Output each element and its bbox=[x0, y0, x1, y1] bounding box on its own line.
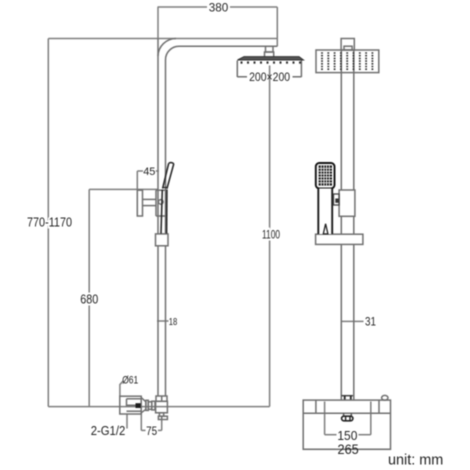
svg-text:Ø61: Ø61 bbox=[122, 375, 138, 387]
svg-text:1100: 1100 bbox=[262, 229, 280, 241]
svg-text:75: 75 bbox=[146, 424, 157, 438]
svg-text:265: 265 bbox=[338, 442, 359, 457]
svg-text:45: 45 bbox=[143, 166, 155, 178]
svg-text:31: 31 bbox=[365, 317, 376, 329]
svg-text:200×200: 200×200 bbox=[249, 70, 290, 84]
svg-text:380: 380 bbox=[209, 2, 229, 14]
svg-text:680: 680 bbox=[80, 293, 98, 307]
svg-text:770-1170: 770-1170 bbox=[27, 216, 72, 230]
svg-text:unit: mm: unit: mm bbox=[388, 452, 443, 468]
svg-text:150: 150 bbox=[337, 429, 357, 443]
svg-text:2-G1/2: 2-G1/2 bbox=[91, 423, 126, 438]
svg-text:18: 18 bbox=[169, 316, 178, 328]
